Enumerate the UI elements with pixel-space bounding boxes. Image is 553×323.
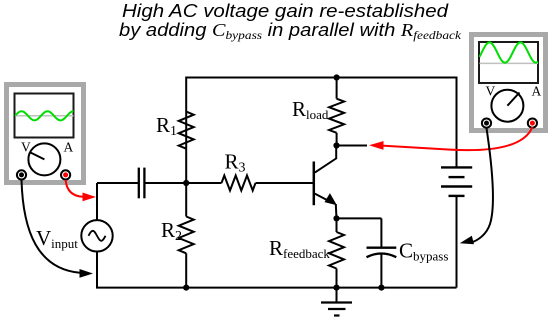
capacitor Cbypass: [380, 218, 382, 247]
probe wire: M1 red lead: [66, 180, 83, 197]
meter M2 dial: [491, 90, 523, 122]
battery B1: [441, 167, 472, 196]
transistor Q1 collector lead: [315, 146, 336, 173]
multimeter M1 (input meter): [7, 85, 84, 183]
wire: Vinput top to coupling cap: [97, 182, 138, 184]
meter M2 waveform (large amplitude): [480, 42, 539, 62]
meter M1 frame: [7, 85, 84, 183]
wire: bottom rail: [97, 251, 457, 287]
node: emitter junction: [333, 215, 339, 221]
svg-text:A: A: [64, 140, 74, 155]
wire: battery to bottom rail: [456, 196, 458, 288]
svg-text:Cbypass: Cbypass: [399, 239, 448, 264]
coupling capacitor C1: [138, 168, 140, 199]
wire: coupling cap to bias node: [146, 182, 187, 184]
source Vinput: [81, 220, 112, 251]
svg-text:Rfeedback: Rfeedback: [269, 236, 330, 261]
resistor R2: [179, 217, 194, 254]
meter M2 screen centerline: [480, 62, 539, 64]
meter M1 screen: [15, 94, 74, 138]
transistor Q1 emitter lead with arrow: [315, 194, 333, 203]
meter M1 needle: [30, 152, 44, 159]
transistor Q1 base bar: [313, 162, 316, 206]
meter M2 black terminal: [482, 119, 491, 128]
svg-text:by adding Cbypass in parallel: by adding Cbypass in parallel with Rfeed…: [119, 20, 462, 42]
svg-text:R1: R1: [156, 113, 177, 139]
svg-text:R3: R3: [225, 150, 246, 176]
Rload lead wires: [336, 78, 338, 99]
probe wire: M2 red lead: [382, 127, 532, 150]
svg-text:Vinput: Vinput: [36, 226, 78, 251]
node: Cbypass bottom junction: [378, 285, 384, 291]
node: R2 bottom junction: [183, 285, 189, 291]
svg-text:High AC voltage gain re-establ: High AC voltage gain re-established: [122, 1, 449, 21]
resistor Rfeedback: [329, 232, 344, 269]
wire: bias node to R3: [186, 182, 221, 184]
meter M2 red terminal: [528, 119, 537, 128]
svg-text:A: A: [532, 84, 542, 99]
node: Rload top junction: [334, 74, 340, 80]
meter M1 black terminal: [17, 170, 26, 179]
node: bias divider junction: [183, 180, 189, 186]
wire: collector stub: [337, 145, 368, 147]
meter M2 frame: [472, 35, 546, 131]
probe wire: M1 black lead: [22, 180, 81, 273]
resistor Rload: [329, 99, 344, 133]
probe wire: M2 black lead: [471, 128, 493, 243]
meter M1 dial: [28, 143, 60, 175]
ground: [321, 288, 352, 316]
Rfeedback lead wires: [336, 218, 338, 232]
meter M1 red terminal: [61, 170, 70, 179]
meter M1 screen centerline: [15, 115, 74, 117]
meter M1 waveform (small amplitude): [15, 111, 74, 120]
meter M2 needle: [507, 93, 519, 106]
node: ground junction: [333, 285, 339, 291]
wire: emitter to Cbypass: [337, 217, 382, 219]
wire: R3 to base: [256, 182, 314, 184]
svg-text:R2: R2: [161, 218, 182, 244]
meter M2 screen: [479, 42, 538, 83]
resistor R3: [222, 176, 256, 191]
wire: top rail (Vcc): [186, 78, 456, 184]
resistor R1: [179, 112, 194, 149]
svg-text:Rload: Rload: [292, 97, 329, 122]
multimeter M2 (output meter): [472, 35, 546, 131]
R2 lead wires: [185, 183, 187, 217]
node: collector junction: [333, 142, 339, 148]
